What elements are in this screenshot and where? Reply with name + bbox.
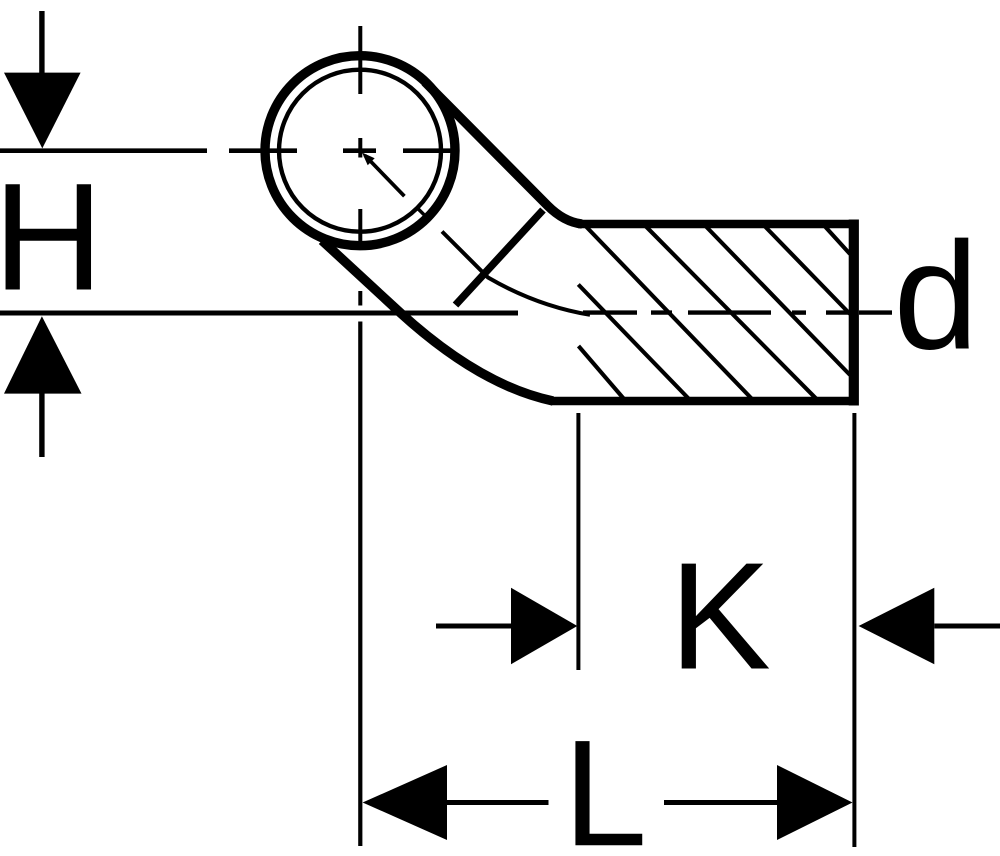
pipe end cap <box>849 220 859 406</box>
L left extension line (below socket center) <box>358 322 362 847</box>
section hatch lines <box>578 227 850 400</box>
H dimension top arrow <box>4 73 81 149</box>
radius indicator arrowhead <box>362 153 375 166</box>
K dimension right arrow <box>859 588 935 664</box>
H dimension top arrow leader <box>39 11 44 74</box>
svg-text:H: H <box>0 152 104 323</box>
right extension line (K and L) <box>852 413 856 847</box>
radius indicator line <box>365 156 404 197</box>
svg-text:L: L <box>563 709 647 856</box>
K dimension left arrow <box>511 588 577 664</box>
H dimension line bottom <box>0 311 518 316</box>
pipe centerline right (dash-dot) <box>583 310 892 314</box>
K extension line <box>576 413 580 670</box>
fitting outer silhouette: top tangent, top edge, end cap, bottom edge, bottom arc, bottom tangent <box>425 82 582 224</box>
socket opening outer circle <box>265 56 455 246</box>
socket depth radial tick <box>416 207 426 217</box>
vertical centerline of socket (dash-dot) <box>358 26 362 306</box>
pipe bottom edge <box>551 397 857 406</box>
K dimension right line <box>934 624 1000 629</box>
L dimension left line <box>447 800 549 805</box>
pipe top edge <box>578 220 857 229</box>
bend outer silhouette bottom <box>322 241 553 402</box>
horizontal centerline of socket (dash-dot) <box>0 148 456 153</box>
socket end plane line <box>456 210 544 305</box>
bend inner contour line <box>442 232 590 315</box>
L dimension left arrow <box>363 765 447 840</box>
svg-text:d: d <box>894 211 979 382</box>
H dimension bottom arrow <box>4 316 82 393</box>
K dimension left line <box>436 624 511 629</box>
L dimension right line <box>664 800 777 805</box>
H dimension bottom arrow leader <box>39 393 44 457</box>
L dimension right arrow <box>777 765 853 840</box>
svg-text:K: K <box>669 532 771 702</box>
socket opening inner circle <box>279 70 441 232</box>
